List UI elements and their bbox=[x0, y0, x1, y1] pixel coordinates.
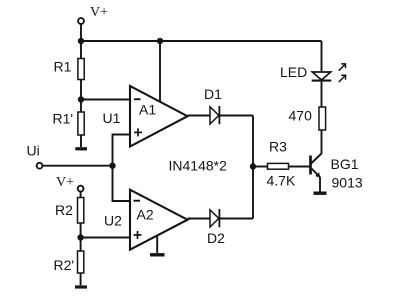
wire bbox=[321, 82, 323, 107]
wire bbox=[253, 166, 268, 168]
wire bbox=[80, 192, 82, 198]
resistor R1' bbox=[78, 112, 84, 135]
wire bbox=[219, 115, 253, 117]
svg-text:U1: U1 bbox=[103, 110, 121, 126]
wire (to U1 inverting input) bbox=[81, 99, 130, 101]
ground (R1') bbox=[75, 147, 87, 150]
terminal V+ (mid) bbox=[78, 186, 84, 192]
svg-text:R2': R2' bbox=[54, 257, 75, 273]
svg-text:R1': R1' bbox=[53, 111, 74, 127]
wire bbox=[289, 166, 310, 168]
wire bbox=[80, 223, 82, 251]
resistor 470 bbox=[319, 107, 326, 130]
wire (U1 output) bbox=[188, 115, 211, 117]
diode D1 bbox=[210, 106, 219, 124]
svg-text:BG1: BG1 bbox=[331, 156, 359, 172]
wire bbox=[80, 24, 82, 41]
wire (U2 to ground) bbox=[156, 236, 158, 253]
ground (U2) bbox=[150, 253, 165, 256]
node (diode junction) bbox=[250, 163, 256, 169]
node (Ui junction) bbox=[109, 163, 115, 169]
wire bbox=[319, 177, 321, 191]
svg-text:R1: R1 bbox=[54, 59, 72, 75]
svg-text:V+: V+ bbox=[56, 175, 74, 190]
wire bbox=[80, 273, 82, 285]
resistor R2' bbox=[78, 251, 84, 273]
ground (R2') bbox=[75, 285, 87, 288]
svg-text:V+: V+ bbox=[90, 5, 108, 20]
wire (to U1 non-inverting input) bbox=[113, 135, 131, 166]
svg-text:U2: U2 bbox=[104, 213, 122, 229]
LED bbox=[312, 72, 332, 81]
op-amp U2 A2 bbox=[130, 190, 188, 250]
diode D2 bbox=[210, 209, 219, 227]
terminal Ui bbox=[37, 163, 43, 169]
wire (diode bus) bbox=[252, 116, 254, 219]
svg-text:4.7K: 4.7K bbox=[267, 173, 296, 189]
svg-text:Ui: Ui bbox=[27, 142, 40, 158]
wire bbox=[321, 130, 323, 154]
svg-text:IN4148*2: IN4148*2 bbox=[169, 158, 228, 174]
ground (emitter) bbox=[314, 191, 327, 194]
node (R1/R1' divider) bbox=[78, 96, 84, 102]
wire (V+ to U1) bbox=[159, 41, 161, 102]
svg-text:A1: A1 bbox=[139, 102, 156, 118]
svg-text:D1: D1 bbox=[204, 86, 222, 102]
wire (to U2 inverting input) bbox=[113, 166, 131, 201]
node (rail / R1) bbox=[78, 38, 84, 44]
wire bbox=[321, 41, 323, 72]
wire bbox=[80, 80, 82, 113]
node (R2/R2' divider) bbox=[77, 234, 83, 240]
wire (top rail) bbox=[81, 40, 322, 42]
wire bbox=[80, 135, 82, 147]
resistor R1 bbox=[78, 59, 84, 80]
svg-text:470: 470 bbox=[289, 108, 313, 124]
transistor BG1 bbox=[311, 154, 322, 178]
wire bbox=[43, 165, 113, 167]
op-amp U1 A1 bbox=[130, 86, 188, 147]
svg-text:D2: D2 bbox=[207, 230, 225, 246]
wire bbox=[219, 218, 253, 220]
svg-text:LED: LED bbox=[280, 64, 307, 80]
node (rail / U1 supply) bbox=[157, 38, 163, 44]
resistor R2 bbox=[78, 198, 84, 224]
LED light arrows bbox=[339, 64, 346, 82]
svg-text:9013: 9013 bbox=[332, 175, 363, 191]
svg-text:A2: A2 bbox=[137, 207, 154, 223]
resistor R3 bbox=[268, 163, 289, 169]
wire bbox=[80, 41, 82, 59]
svg-text:R3: R3 bbox=[269, 139, 287, 155]
wire (U2 output) bbox=[188, 218, 211, 220]
terminal V+ (top) bbox=[78, 18, 84, 24]
wire (to U2 non-inverting input) bbox=[81, 237, 130, 239]
svg-text:R2: R2 bbox=[55, 202, 73, 218]
